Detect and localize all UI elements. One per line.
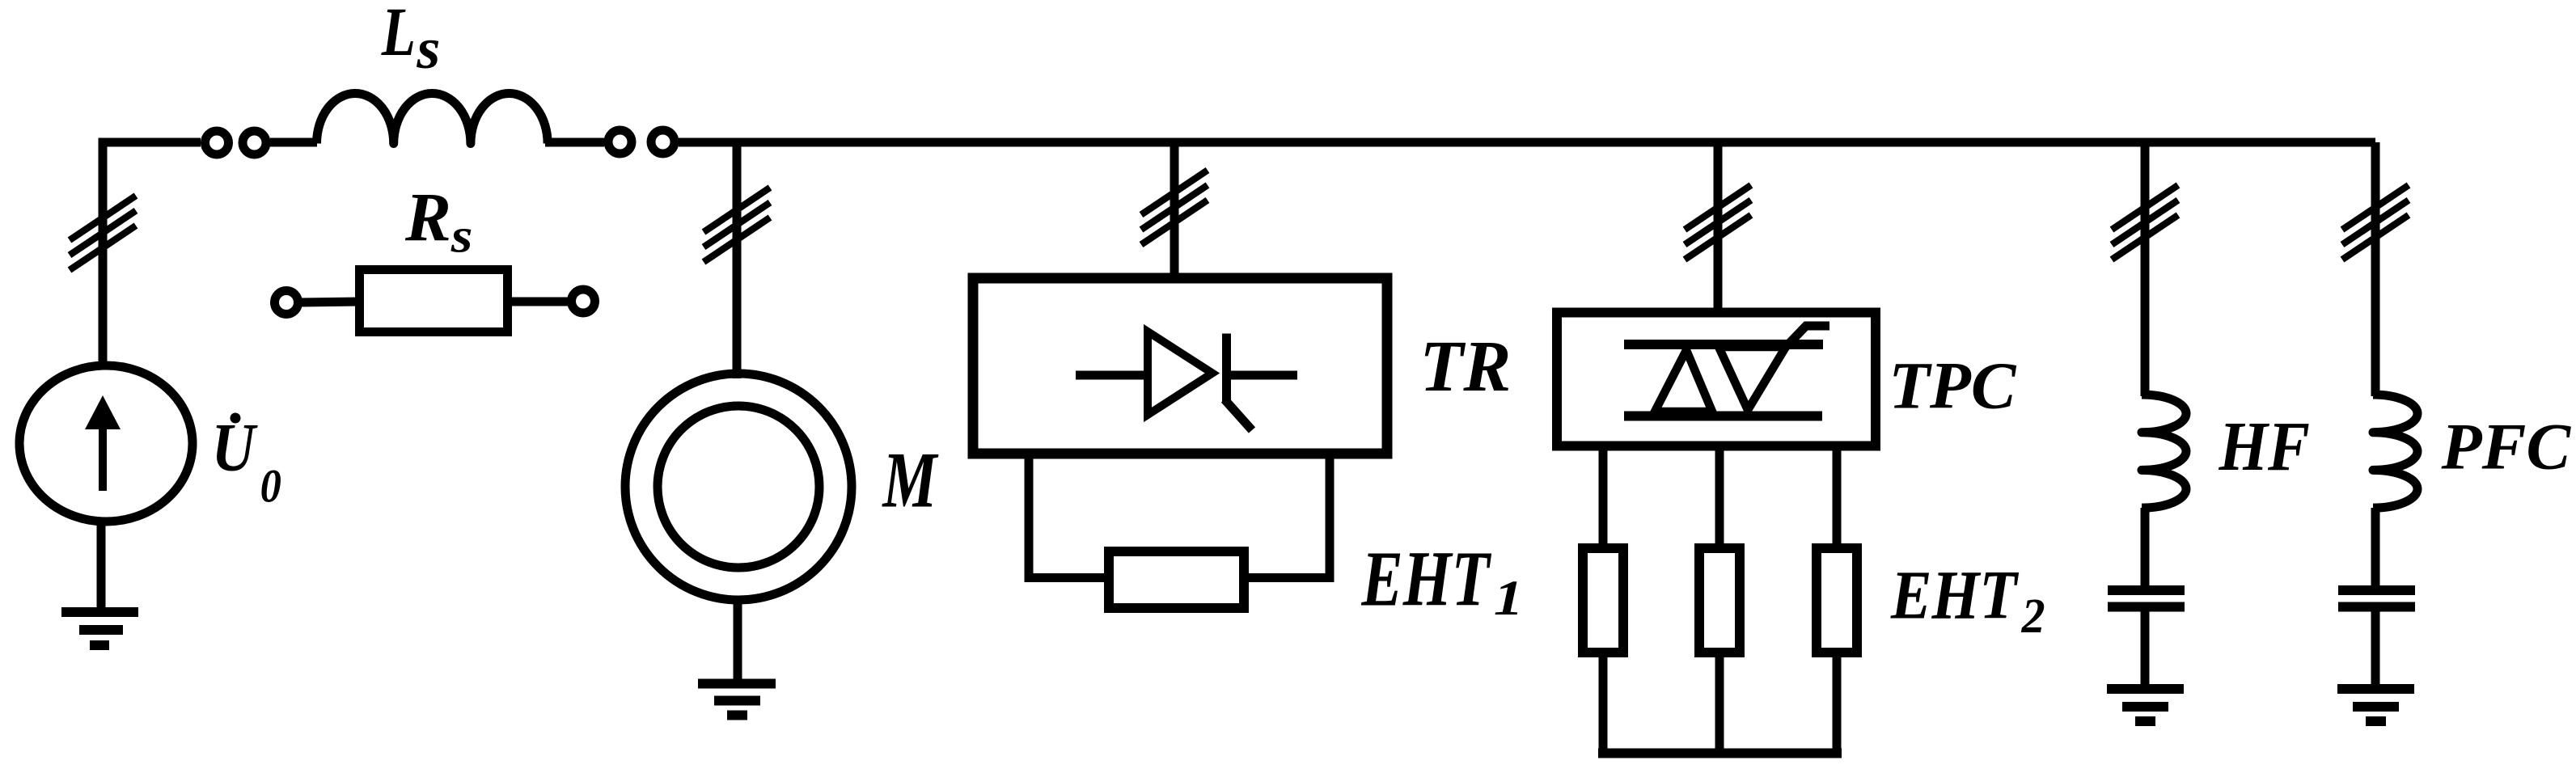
label TPC bbox=[1889, 348, 2017, 423]
wire: TPC middle lead to EHT2 resistor 2 bbox=[1715, 446, 1724, 548]
wire: HF inductor to capacitor bbox=[2141, 508, 2150, 588]
wire: HF capacitor to ground bbox=[2141, 611, 2150, 689]
voltage source U0 bbox=[19, 365, 192, 522]
wire: top bus left segment from corner to first terminal bbox=[103, 142, 201, 147]
wire: source U0 to ground bbox=[97, 521, 106, 612]
terminal circle pair 2 (right of Ls) bbox=[608, 130, 675, 154]
wire: vertical drop to motor M bbox=[733, 142, 742, 378]
triac symbol inside TPC bbox=[1624, 326, 1829, 416]
label Rs bbox=[404, 179, 472, 262]
3-phase slash marks on TR branch bbox=[1141, 171, 1208, 245]
wire: EHT2 resistor 2 to bottom bus bbox=[1715, 653, 1724, 753]
wire: Rs right lead bbox=[507, 298, 572, 306]
converter box TPC bbox=[1557, 313, 1876, 446]
terminal circle pair 1 (left of Ls) bbox=[205, 131, 267, 154]
resistor Rs bbox=[360, 270, 508, 332]
svg-text:L: L bbox=[381, 0, 416, 70]
wire: bus between terminal pair 1 and inductor Ls bbox=[270, 138, 317, 147]
converter box TR bbox=[973, 278, 1387, 454]
ground below U0 bbox=[61, 612, 138, 645]
svg-text:TR: TR bbox=[1419, 326, 1511, 407]
wire: PFC capacitor to ground bbox=[2371, 611, 2380, 689]
3-phase slash marks on HF branch bbox=[2112, 185, 2178, 260]
svg-text:PFC: PFC bbox=[2440, 410, 2571, 484]
wire: TPC left lead to EHT2 resistor 1 bbox=[1599, 446, 1608, 548]
resistor EHT1 bbox=[1109, 551, 1244, 608]
inductor PFC bbox=[2373, 395, 2417, 508]
wire: vertical drop to source U0 bbox=[99, 142, 108, 368]
ground below PFC bbox=[2337, 689, 2414, 721]
svg-text:M: M bbox=[882, 436, 940, 524]
wire: vertical drop to PFC filter (bus right corner) bbox=[2371, 142, 2380, 396]
svg-text:EHT: EHT bbox=[1890, 556, 2020, 633]
inductor HF bbox=[2142, 395, 2186, 508]
wire: vertical drop to HF filter bbox=[2141, 142, 2150, 396]
label TR bbox=[1419, 326, 1511, 407]
svg-text:HF: HF bbox=[2219, 408, 2310, 485]
terminal circle right of Rs bbox=[572, 289, 595, 313]
svg-text:EHT: EHT bbox=[1361, 535, 1492, 622]
label EHT1 bbox=[1361, 535, 1524, 626]
wire: Rs left lead bbox=[298, 302, 360, 302]
thyristor symbol inside TR bbox=[1076, 332, 1297, 430]
label M bbox=[882, 436, 940, 524]
wire: vertical drop to TR box bbox=[1170, 142, 1179, 283]
wire: motor M to ground bbox=[734, 600, 742, 683]
svg-text:1: 1 bbox=[1494, 571, 1524, 626]
wire: vertical drop to TPC box bbox=[1714, 142, 1723, 315]
3-phase slash marks on M branch bbox=[704, 188, 770, 262]
label U0 (with dot) bbox=[212, 410, 281, 513]
wire: TPC right lead to EHT2 resistor 3 bbox=[1833, 446, 1842, 548]
capacitor HF bbox=[2108, 590, 2185, 607]
capacitor PFC bbox=[2338, 590, 2415, 607]
label Ls bbox=[381, 0, 441, 81]
wire: bus between inductor Ls and terminal pair 2 bbox=[545, 138, 604, 147]
svg-text:s: s bbox=[450, 208, 473, 262]
ground below HF bbox=[2107, 689, 2184, 721]
label PFC bbox=[2440, 410, 2571, 484]
wire: TR box right lead down to EHT1 bbox=[1244, 454, 1330, 578]
3-phase slash marks on PFC branch bbox=[2342, 185, 2409, 260]
ground below M bbox=[698, 684, 776, 716]
3-phase slash marks on U0 branch bbox=[70, 196, 136, 270]
terminal circle left of Rs bbox=[275, 291, 298, 315]
label HF bbox=[2219, 408, 2310, 485]
motor M (double circle) bbox=[625, 374, 852, 600]
wire: EHT2 resistor 3 to bottom bus bbox=[1833, 653, 1842, 753]
resistor EHT2 a bbox=[1583, 548, 1623, 653]
svg-text:R: R bbox=[404, 179, 451, 256]
wire: main top bus from terminal pair 2 to PFC corner bbox=[679, 138, 2375, 147]
svg-text:s: s bbox=[416, 15, 440, 81]
svg-text:0: 0 bbox=[260, 461, 281, 513]
arrow inside source U0 bbox=[85, 395, 121, 491]
label EHT2 bbox=[1890, 556, 2045, 643]
resistor EHT2 c bbox=[1817, 548, 1857, 653]
inductor Ls bbox=[317, 93, 548, 143]
svg-text:TPC: TPC bbox=[1889, 348, 2017, 423]
wire: EHT2 bottom bus bbox=[1598, 749, 1842, 758]
wire: TR box left lead down to EHT1 bbox=[1029, 454, 1109, 578]
wire: EHT2 resistor 1 to bottom bus bbox=[1599, 653, 1608, 753]
3-phase slash marks on TPC branch bbox=[1685, 185, 1751, 260]
svg-text:2: 2 bbox=[2021, 588, 2045, 643]
resistor EHT2 b bbox=[1699, 548, 1740, 653]
wire: PFC inductor to capacitor bbox=[2371, 508, 2380, 588]
